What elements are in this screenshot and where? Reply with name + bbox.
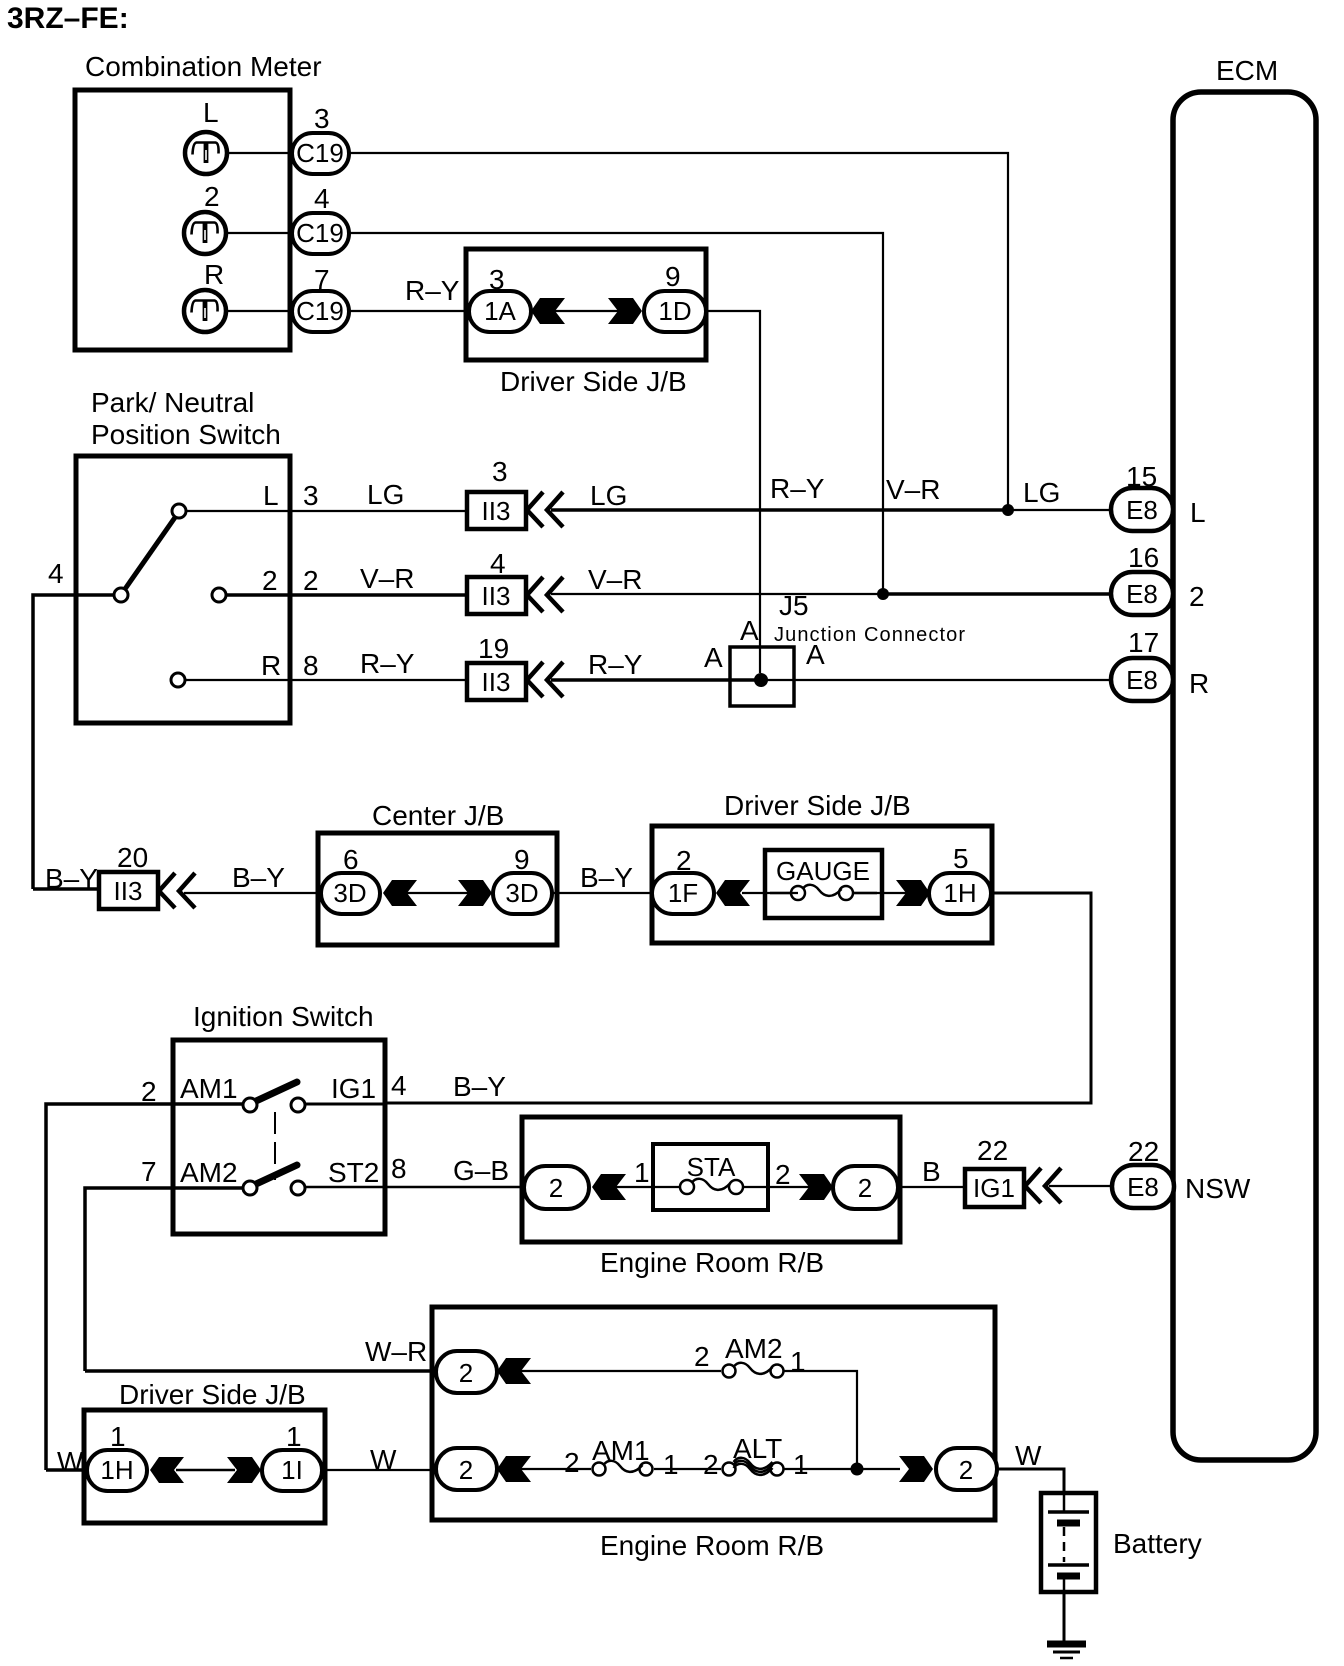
svg-text:1: 1 — [790, 1346, 806, 1377]
battery box — [1041, 1493, 1096, 1592]
svg-text:Engine Room R/B: Engine Room R/B — [600, 1530, 824, 1561]
ignition switch box — [173, 1040, 385, 1234]
connector 3D left — [321, 873, 380, 914]
wire IG1 to E8-22 — [1049, 1185, 1113, 1187]
wire AM2 fuse to W node — [783, 1371, 857, 1469]
svg-text:22: 22 — [977, 1135, 1008, 1166]
svg-text:8: 8 — [391, 1153, 407, 1184]
wire battery to ground — [1063, 1592, 1066, 1641]
svg-text:Driver Side J/B: Driver Side J/B — [724, 790, 911, 821]
svg-text:W: W — [57, 1446, 84, 1477]
svg-text:IG1: IG1 — [973, 1173, 1015, 1203]
svg-text:II3: II3 — [482, 496, 511, 526]
wire IG1 to box edge — [305, 1103, 387, 1106]
wire II3 to V-R node — [551, 593, 883, 595]
svg-text:R: R — [1189, 668, 1209, 699]
wire 2 oval to battery — [997, 1469, 1064, 1495]
svg-text:C19: C19 — [296, 218, 344, 248]
svg-text:E8: E8 — [1126, 495, 1158, 525]
AM1 contact — [243, 1098, 257, 1112]
svg-text:G–B: G–B — [453, 1155, 509, 1186]
IG1 contact — [291, 1098, 305, 1112]
svg-text:Position Switch: Position Switch — [91, 419, 281, 450]
wire pin4 to B-Y column — [33, 595, 113, 889]
svg-text:3: 3 — [492, 456, 508, 487]
wire 1I to engine room RB — [322, 1469, 438, 1471]
wire C19-7 to 1A — [349, 310, 467, 312]
connector 2 W-R row — [436, 1351, 497, 1393]
svg-text:LG: LG — [590, 480, 627, 511]
svg-text:R–Y: R–Y — [588, 649, 643, 680]
connector 1F — [652, 873, 714, 914]
svg-text:1I: 1I — [281, 1455, 303, 1485]
fuse AM1 element — [593, 1461, 653, 1476]
svg-text:Battery: Battery — [1113, 1528, 1202, 1559]
connector 1D — [644, 291, 706, 332]
svg-text:NSW: NSW — [1185, 1173, 1251, 1204]
driver side J/B mid box — [652, 826, 992, 943]
wire II3-20 to 3D — [184, 892, 322, 894]
svg-text:Driver Side J/B: Driver Side J/B — [119, 1379, 306, 1410]
svg-text:1H: 1H — [943, 878, 976, 908]
connector 1I — [262, 1450, 322, 1491]
svg-text:20: 20 — [117, 842, 148, 873]
svg-text:E8: E8 — [1126, 579, 1158, 609]
svg-text:Engine Room R/B: Engine Room R/B — [600, 1247, 824, 1278]
indicator lamp 2 — [184, 212, 226, 254]
ignition switch pole 2 lever — [254, 1165, 297, 1185]
wire between arrows center J/B — [407, 892, 468, 894]
connector 2 W row right — [936, 1448, 997, 1490]
svg-text:2: 2 — [262, 565, 278, 596]
svg-text:W: W — [1015, 1440, 1042, 1471]
svg-text:B–Y: B–Y — [580, 862, 633, 893]
svg-text:ECM: ECM — [1216, 55, 1278, 86]
svg-text:GAUGE: GAUGE — [776, 856, 870, 886]
connector C19 pin 3 — [292, 133, 349, 174]
switch contact 2 — [212, 588, 226, 602]
switch common contact pin 4 — [114, 588, 128, 602]
svg-text:2: 2 — [959, 1455, 973, 1485]
connector II3 row R — [467, 663, 526, 700]
arrow left W row — [497, 1456, 531, 1482]
svg-text:AM1: AM1 — [592, 1435, 650, 1466]
svg-text:Junction Connector: Junction Connector — [774, 624, 966, 646]
svg-text:B: B — [922, 1156, 941, 1187]
wire ALT to W node — [783, 1468, 900, 1470]
wire lamp 2 to C19 — [226, 232, 292, 234]
svg-text:II3: II3 — [114, 876, 143, 906]
chevrons II3 row 2 — [527, 577, 563, 612]
wire L to II3 — [186, 510, 467, 512]
svg-text:R–Y: R–Y — [405, 275, 460, 306]
svg-text:E8: E8 — [1126, 665, 1158, 695]
svg-text:STA: STA — [687, 1152, 736, 1182]
svg-text:22: 22 — [1128, 1136, 1159, 1167]
arrow right W row — [899, 1456, 933, 1482]
wire J5 to E8-17 — [761, 679, 1113, 681]
wire C19-3 to LG node — [349, 153, 1008, 505]
svg-text:V–R: V–R — [588, 564, 642, 595]
svg-text:J5: J5 — [779, 590, 809, 621]
svg-text:2: 2 — [204, 181, 220, 212]
AM2 contact — [243, 1181, 257, 1195]
svg-text:3D: 3D — [333, 878, 366, 908]
junction connector J5 box — [730, 647, 794, 706]
wire gauge to arrow — [853, 892, 930, 894]
fuse STA box — [653, 1144, 768, 1210]
svg-text:W–R: W–R — [365, 1336, 427, 1367]
connector II3 row 2 — [467, 577, 526, 614]
svg-text:R: R — [261, 650, 281, 681]
ECM box — [1173, 92, 1316, 1460]
svg-text:9: 9 — [514, 844, 530, 875]
fuse STA element — [680, 1179, 743, 1194]
park/neutral position switch box — [76, 456, 290, 723]
arrow right bottom JB — [227, 1457, 261, 1483]
svg-text:1H: 1H — [100, 1455, 133, 1485]
wire V-R node to E8-16 — [883, 592, 1113, 596]
driver side J/B top box — [466, 249, 706, 360]
svg-text:17: 17 — [1128, 627, 1159, 658]
svg-text:Center J/B: Center J/B — [372, 800, 504, 831]
svg-text:C19: C19 — [296, 296, 344, 326]
wire between arrows — [555, 310, 618, 312]
arrow left in driver side J/B — [531, 298, 565, 324]
svg-text:B–Y: B–Y — [232, 862, 285, 893]
svg-text:1A: 1A — [484, 296, 516, 326]
svg-text:2: 2 — [303, 565, 319, 596]
wire to AM1 fuse — [521, 1468, 591, 1470]
svg-text:3RZ–FE:: 3RZ–FE: — [7, 2, 129, 35]
svg-text:2: 2 — [549, 1173, 563, 1203]
chevrons II3 pin 20 — [159, 873, 195, 908]
connector E8 pin 15 — [1111, 488, 1173, 531]
svg-text:3D: 3D — [505, 878, 538, 908]
svg-text:AM2: AM2 — [725, 1333, 783, 1364]
wire 2 to II3 — [226, 593, 467, 597]
svg-text:L: L — [203, 97, 219, 128]
node V-R junction — [877, 588, 889, 600]
connector C19 pin 4 — [292, 213, 349, 254]
svg-text:7: 7 — [141, 1156, 157, 1187]
arrow left at STA — [592, 1174, 626, 1200]
wire inside J5 — [730, 678, 761, 682]
switch lever — [125, 516, 176, 589]
indicator lamp L — [185, 132, 227, 174]
svg-text:1: 1 — [793, 1449, 809, 1480]
connector 3D right — [493, 873, 552, 914]
svg-text:A: A — [806, 639, 825, 670]
wire AM2 feed — [85, 1188, 246, 1371]
svg-text:AM1: AM1 — [180, 1073, 238, 1104]
wire 1D to J5 — [706, 311, 760, 673]
chevrons II3 row L — [527, 492, 563, 527]
svg-text:Ignition Switch: Ignition Switch — [193, 1001, 374, 1032]
engine room R/B bottom box — [432, 1307, 995, 1520]
svg-text:R–Y: R–Y — [770, 473, 825, 504]
wire LG node to E8-15 — [1008, 509, 1113, 511]
svg-text:4: 4 — [391, 1070, 407, 1101]
svg-text:L: L — [1190, 497, 1206, 528]
svg-text:ALT: ALT — [733, 1433, 782, 1464]
fuse AM2 element — [723, 1363, 784, 1378]
svg-text:2: 2 — [1189, 581, 1205, 612]
svg-text:V–R: V–R — [886, 474, 940, 505]
wire to AM2 fuse — [521, 1370, 721, 1372]
driver side J/B bottom box — [84, 1410, 325, 1523]
wire lamp R to C19 — [226, 310, 292, 312]
svg-text:B–Y: B–Y — [453, 1071, 506, 1102]
connector 2 left — [524, 1166, 589, 1209]
battery cells — [1048, 1493, 1089, 1592]
wire R to II3 — [185, 679, 467, 681]
svg-text:1: 1 — [110, 1421, 126, 1452]
connector 2 W row — [436, 1448, 497, 1490]
svg-text:1: 1 — [663, 1449, 679, 1480]
connector IG1 — [965, 1169, 1024, 1207]
connector 1H bottom — [87, 1450, 147, 1491]
svg-text:R: R — [204, 259, 224, 290]
connector 1A — [469, 291, 531, 332]
svg-text:AM2: AM2 — [180, 1157, 238, 1188]
svg-text:2: 2 — [775, 1159, 791, 1190]
svg-text:C19: C19 — [296, 138, 344, 168]
switch contact R — [171, 673, 185, 687]
node LG junction — [1002, 504, 1014, 516]
svg-text:IG1: IG1 — [331, 1073, 376, 1104]
svg-text:6: 6 — [343, 844, 359, 875]
svg-text:2: 2 — [564, 1447, 580, 1478]
svg-text:A: A — [740, 615, 759, 646]
wire 1H to ignition IG1 — [387, 893, 1091, 1103]
svg-text:II3: II3 — [482, 581, 511, 611]
svg-text:A: A — [704, 642, 723, 673]
arrow right in driver side J/B — [608, 298, 642, 324]
node W junction — [851, 1463, 864, 1476]
svg-text:R–Y: R–Y — [360, 648, 415, 679]
mechanical link dashed — [274, 1112, 276, 1180]
arrow left bottom JB — [150, 1457, 184, 1483]
svg-text:2: 2 — [694, 1341, 710, 1372]
wire between arrows bottom JB — [176, 1469, 235, 1472]
connector 1H — [929, 873, 991, 914]
svg-text:1: 1 — [634, 1157, 650, 1188]
svg-text:3: 3 — [314, 103, 330, 134]
connector E8 pin 17 — [1111, 658, 1173, 701]
wire 1F arrow to gauge — [742, 892, 798, 894]
connector E8 pin 16 — [1111, 572, 1173, 615]
svg-text:4: 4 — [314, 183, 330, 214]
svg-text:8: 8 — [303, 650, 319, 681]
fuse GAUGE element — [770, 885, 877, 900]
svg-text:1D: 1D — [658, 296, 691, 326]
wire AM2 column to engine room RB — [85, 1369, 434, 1373]
svg-text:1: 1 — [286, 1421, 302, 1452]
chevrons IG1 — [1025, 1168, 1061, 1203]
svg-text:1F: 1F — [668, 878, 698, 908]
center J/B box — [318, 833, 557, 945]
arrow right at 1H — [896, 880, 930, 906]
wire AM1 to ALT — [654, 1468, 721, 1470]
wire 2 oval to IG1 connector — [898, 1186, 965, 1188]
engine room R/B top box — [522, 1117, 900, 1242]
wire ST2 to engine room RB — [305, 1186, 524, 1189]
fuse GAUGE box — [765, 850, 882, 918]
chevrons II3 row R — [527, 662, 563, 697]
svg-text:3: 3 — [303, 480, 319, 511]
svg-text:5: 5 — [953, 843, 969, 874]
svg-text:19: 19 — [478, 633, 509, 664]
wire STA to arrow — [743, 1186, 833, 1188]
svg-text:4: 4 — [490, 548, 506, 579]
wire lamp L to C19 — [227, 152, 292, 154]
arrow right in center J/B — [458, 880, 492, 906]
arrow right at 2 oval — [799, 1174, 833, 1200]
node A junction dot — [754, 673, 768, 687]
wire 3D to 1F — [552, 892, 654, 894]
switch contact L — [172, 504, 186, 518]
combination meter box — [75, 90, 290, 350]
connector II3 row L — [467, 492, 526, 529]
svg-text:9: 9 — [665, 261, 681, 292]
svg-text:16: 16 — [1128, 542, 1159, 573]
svg-text:LG: LG — [367, 479, 404, 510]
wire pin4 column to II3-20 — [33, 887, 99, 891]
svg-text:E8: E8 — [1127, 1172, 1159, 1202]
wire arrow to STA — [616, 1186, 679, 1188]
ignition switch pole 1 lever — [254, 1082, 297, 1102]
ground — [1047, 1644, 1086, 1658]
svg-text:V–R: V–R — [360, 563, 414, 594]
svg-text:4: 4 — [48, 558, 64, 589]
connector C19 pin 7 — [292, 291, 349, 332]
ST2 contact — [291, 1181, 305, 1195]
svg-text:II3: II3 — [482, 667, 511, 697]
arrow left in center J/B — [383, 880, 417, 906]
connector II3 pin 20 — [99, 872, 158, 909]
svg-text:2: 2 — [858, 1173, 872, 1203]
fusible link ALT element — [723, 1458, 784, 1476]
svg-text:2: 2 — [703, 1449, 719, 1480]
svg-text:2: 2 — [459, 1455, 473, 1485]
arrow left at 1F — [716, 880, 750, 906]
arrow left W-R row — [497, 1358, 531, 1384]
indicator lamp R — [184, 290, 226, 332]
connector 2 right — [833, 1166, 898, 1209]
wire W column to 1H — [46, 1468, 88, 1472]
svg-text:Park/ Neutral: Park/ Neutral — [91, 387, 254, 418]
svg-text:2: 2 — [459, 1358, 473, 1388]
svg-text:Combination Meter: Combination Meter — [85, 51, 322, 82]
svg-text:LG: LG — [1023, 477, 1060, 508]
svg-text:L: L — [263, 480, 279, 511]
wire II3 to J5 — [551, 678, 730, 682]
wire C19-4 to V-R node — [349, 233, 883, 589]
svg-text:ST2: ST2 — [328, 1157, 379, 1188]
wire II3 to LG node — [551, 508, 1008, 512]
svg-text:Driver Side J/B: Driver Side J/B — [500, 366, 687, 397]
connector E8 pin 22 — [1112, 1165, 1174, 1208]
wire AM1 feed — [46, 1104, 246, 1470]
